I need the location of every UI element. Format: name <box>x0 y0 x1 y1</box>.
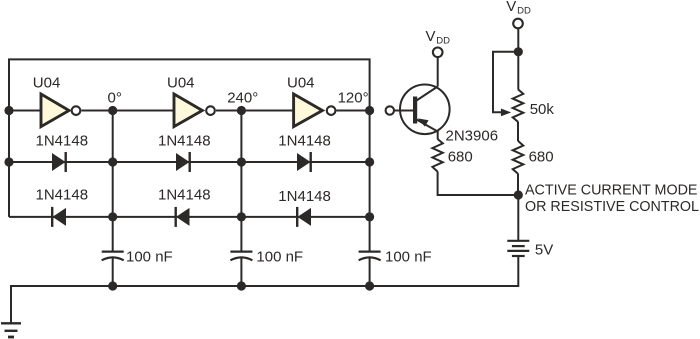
wire: diode row 2 horizontal <box>9 216 370 218</box>
svg-text:U04: U04 <box>33 75 61 92</box>
VDD terminal above potentiometer <box>506 0 531 28</box>
svg-text:ACTIVE CURRENT MODE: ACTIVE CURRENT MODE <box>525 181 698 198</box>
node: col2 ground rail <box>237 281 246 290</box>
svg-text:50k: 50k <box>530 101 555 118</box>
wire: R1 bottom to summing node <box>438 172 519 196</box>
svg-text:240°: 240° <box>227 89 258 106</box>
wire: column node 120deg vertical <box>369 111 371 252</box>
svg-text:1N4148: 1N4148 <box>36 186 89 203</box>
capacitor C1 100 nF <box>102 252 124 261</box>
transistor Q1 2N3906 (PNP) <box>400 85 450 135</box>
node: 0 degrees <box>108 106 117 115</box>
node: left rail / diode row 1 <box>4 157 13 166</box>
wire: pot wiper branch <box>493 52 518 113</box>
node: col3 row2 <box>365 212 374 221</box>
resistor R3 680 <box>513 141 524 174</box>
svg-text:1N4148: 1N4148 <box>278 188 331 205</box>
svg-text:680: 680 <box>529 149 554 166</box>
svg-text:120°: 120° <box>338 89 369 106</box>
wire: node 0deg to U2 input <box>113 110 175 112</box>
wire: column 240deg cap to ground rail <box>240 258 242 287</box>
svg-text:680: 680 <box>448 149 473 166</box>
diode D6 1N4148 (row 2, points left) <box>297 207 311 227</box>
node: col1 row1 <box>108 157 117 166</box>
wire: diode row 1 horizontal <box>9 161 370 163</box>
wire: inverter U1 input <box>9 110 42 112</box>
inverter U3 (U04) <box>294 94 336 127</box>
svg-text:OR RESISTIVE CONTROL: OR RESISTIVE CONTROL <box>525 198 699 215</box>
wire: column node 0deg vertical <box>112 111 114 252</box>
svg-text:100 nF: 100 nF <box>385 248 432 265</box>
node: col1 ground rail <box>108 281 117 290</box>
capacitor C3 100 nF <box>359 252 381 261</box>
node: col3 row1 <box>365 157 374 166</box>
svg-text:100 nF: 100 nF <box>126 248 173 265</box>
node: col2 row1 <box>237 157 246 166</box>
node: col1 row2 <box>108 212 117 221</box>
inverter U1 (U04) <box>41 94 80 127</box>
inverter U2 (U04) <box>174 94 215 127</box>
wire: left vertical rail <box>8 111 10 217</box>
wire: top feedback horizontal <box>9 59 370 110</box>
wire: VDD2 terminal down to pot top node <box>517 29 519 90</box>
node: col2 row2 <box>237 212 246 221</box>
svg-text:5V: 5V <box>535 242 553 259</box>
wire: R3 bottom to summing node <box>517 174 519 195</box>
wire: U1 output to node 0deg <box>82 110 113 112</box>
node: pot top / wiper <box>514 47 523 56</box>
svg-text:V: V <box>426 28 436 45</box>
diode D3 1N4148 (row 1) <box>297 152 311 172</box>
potentiometer R2 50k <box>501 89 523 122</box>
svg-text:1N4148: 1N4148 <box>36 133 89 150</box>
wire: node 240deg to U3 input <box>241 110 293 112</box>
resistor R1 680 (emitter) <box>432 139 442 172</box>
svg-text:DD: DD <box>436 35 450 46</box>
wire: collector to VDD terminal <box>437 58 439 87</box>
svg-text:V: V <box>506 0 516 15</box>
wire: column 120deg cap to ground rail <box>369 258 371 287</box>
diode D5 1N4148 (row 2, points left) <box>176 207 190 227</box>
diode D2 1N4148 (row 1) <box>176 152 190 172</box>
wire: column 0deg cap to ground rail <box>112 258 114 287</box>
svg-text:U04: U04 <box>167 75 195 92</box>
svg-text:2N3906: 2N3906 <box>446 127 499 144</box>
diode D4 1N4148 (row 2, points left) <box>52 207 66 227</box>
svg-text:0°: 0° <box>108 89 122 106</box>
wire: summing node to battery <box>517 195 519 240</box>
wire: pot bottom to R3 top <box>517 122 519 141</box>
wire: column node 240deg vertical <box>240 111 242 252</box>
svg-text:100 nF: 100 nF <box>256 248 303 265</box>
node: 120 degrees <box>365 106 374 115</box>
node: left rail / U1 input <box>4 106 13 115</box>
wire: transistor base lead <box>395 110 413 112</box>
VDD terminal above Q1 <box>426 28 451 57</box>
input terminal open circle at transistor base <box>386 106 394 114</box>
wire: ground rail bottom <box>11 256 518 323</box>
battery B1 5V <box>507 241 529 256</box>
svg-text:U04: U04 <box>287 75 315 92</box>
wire: U3 output to node 120deg <box>336 110 369 112</box>
svg-text:1N4148: 1N4148 <box>158 186 211 203</box>
ground symbol <box>1 323 21 337</box>
svg-text:1N4148: 1N4148 <box>278 133 331 150</box>
capacitor C2 100 nF <box>230 252 252 261</box>
node: col3 ground rail <box>365 281 374 290</box>
svg-text:DD: DD <box>517 5 531 16</box>
wire: U2 output to node 240deg <box>216 110 241 112</box>
wire: emitter down to R1 <box>437 131 439 139</box>
svg-text:1N4148: 1N4148 <box>158 133 211 150</box>
node: summing node <box>514 190 523 199</box>
diode D1 1N4148 (row 1) <box>52 152 66 172</box>
node: 240 degrees <box>237 106 246 115</box>
